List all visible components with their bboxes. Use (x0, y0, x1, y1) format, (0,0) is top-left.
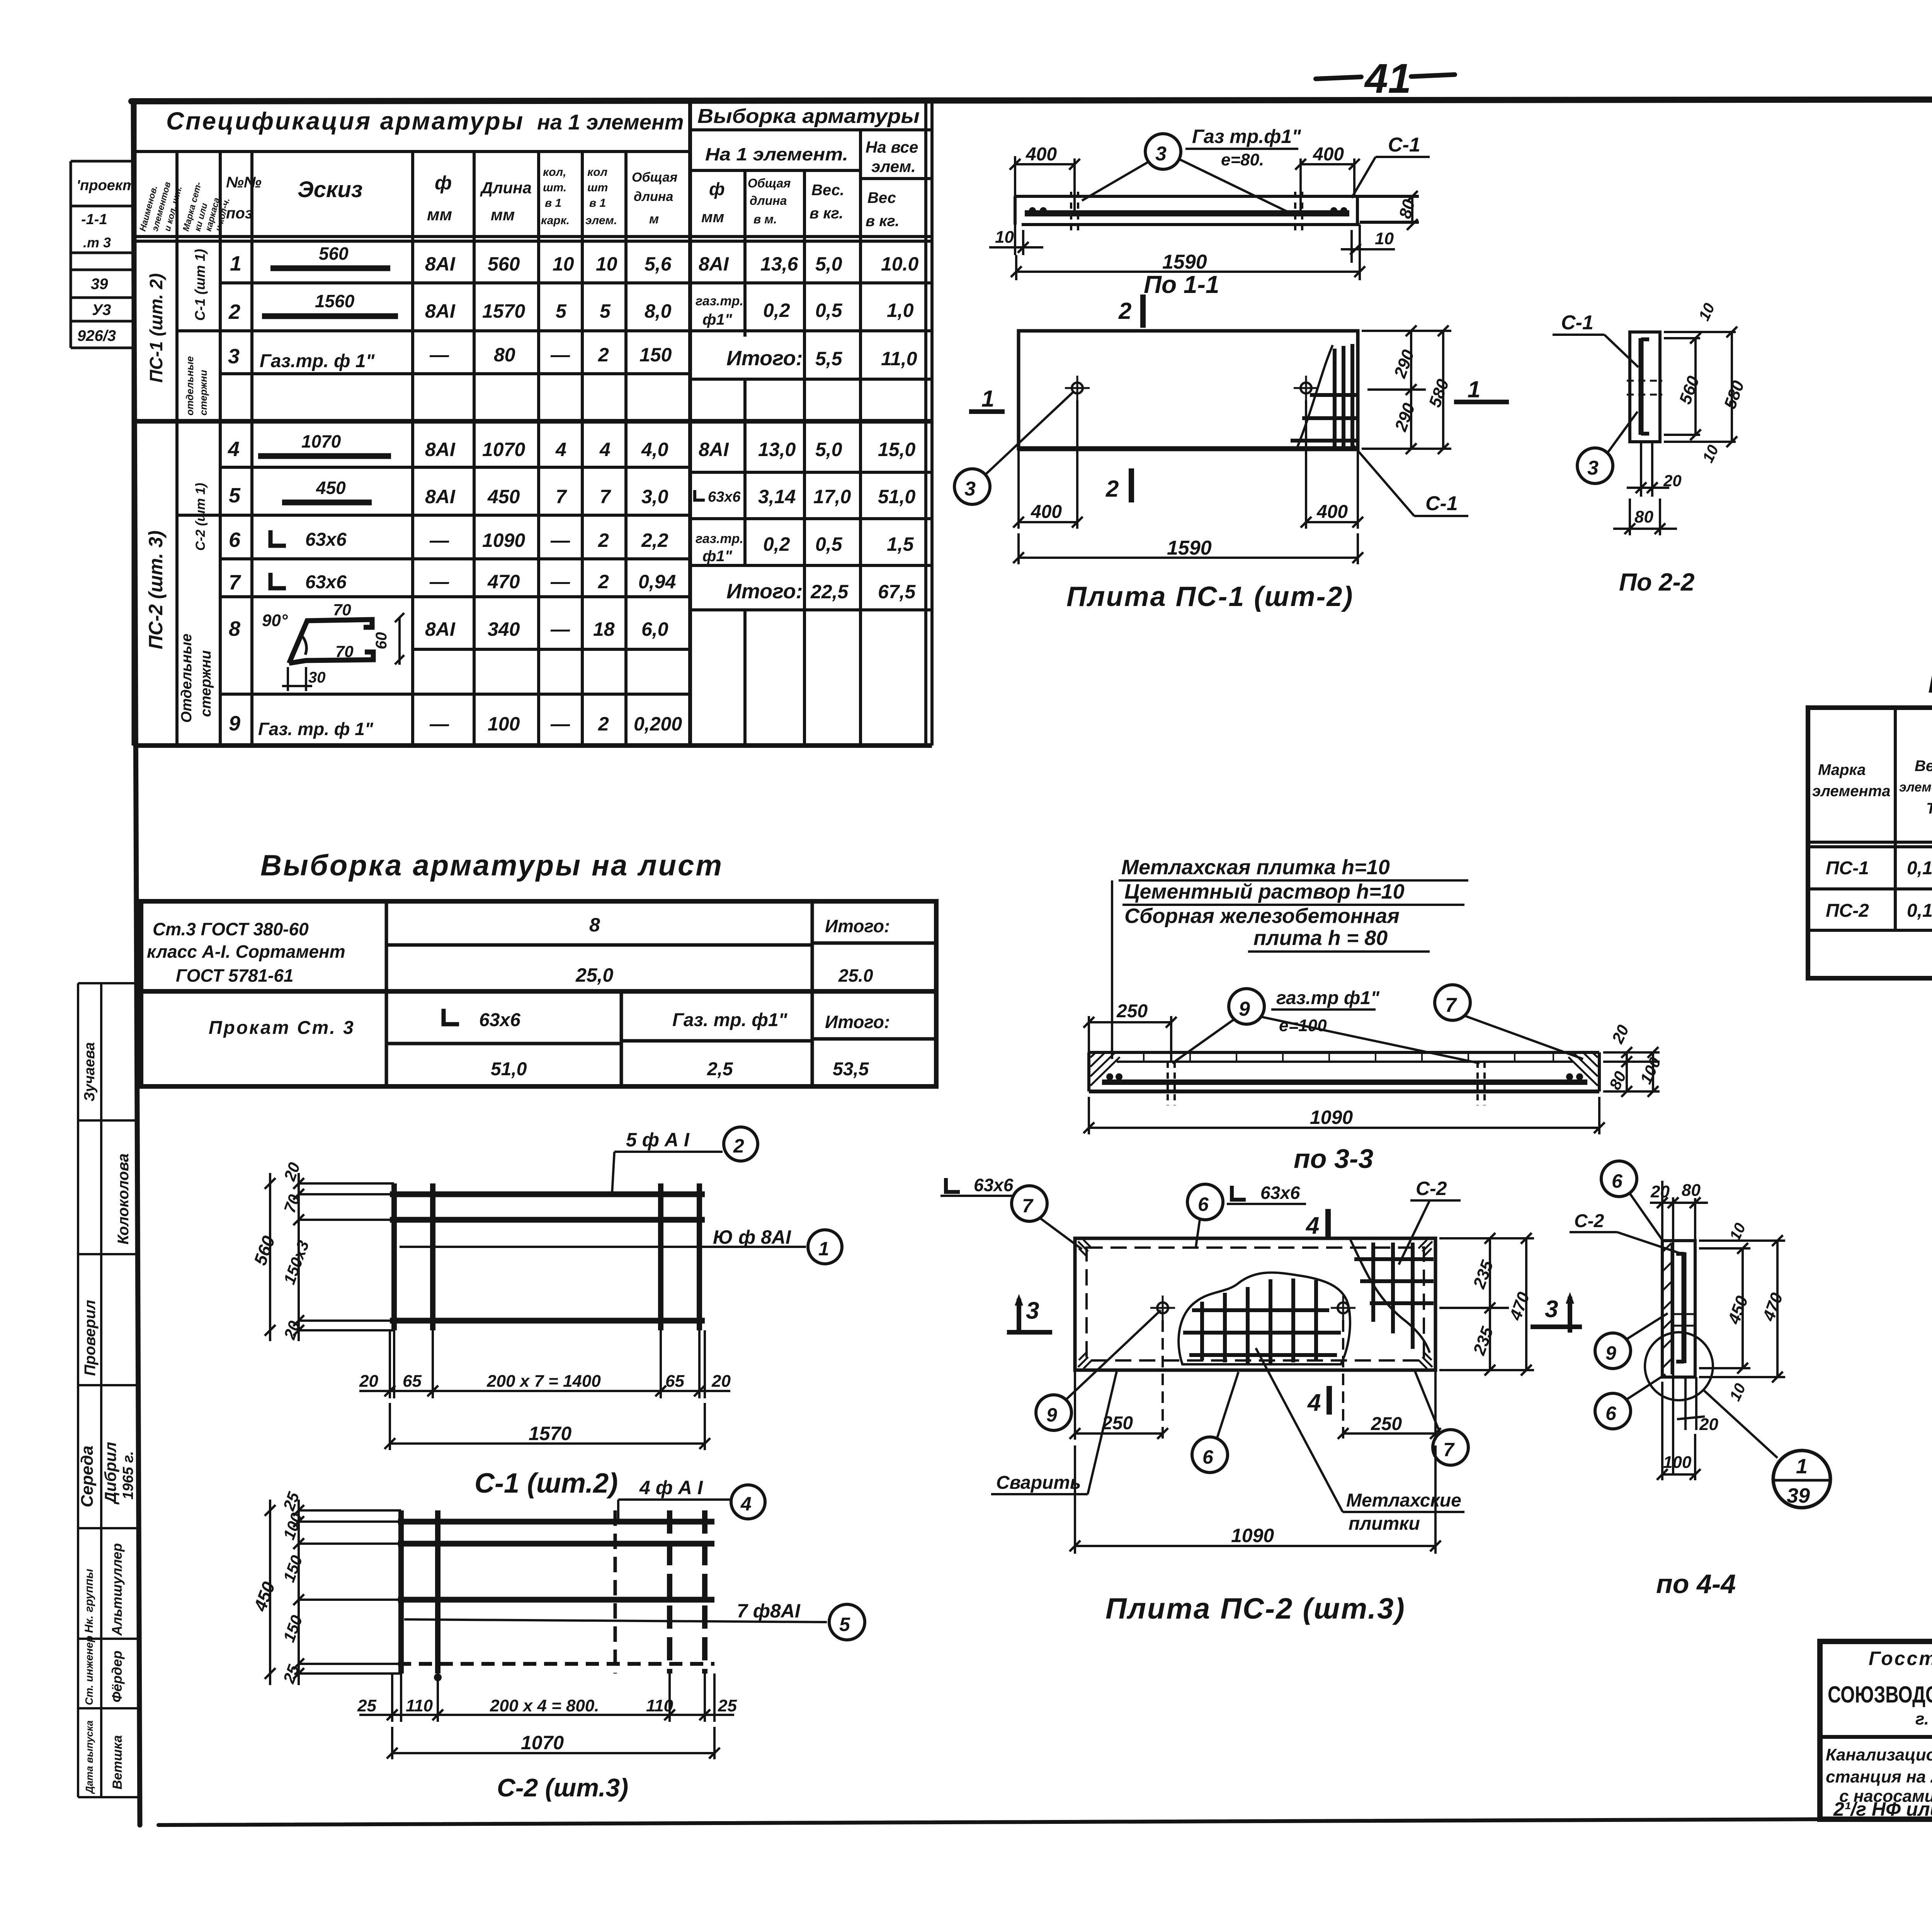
dim 1070 (387, 1727, 720, 1759)
bottom dims chain (359, 1674, 734, 1722)
circle 6 bottom (1595, 1393, 1631, 1429)
svg-text:10: 10 (995, 228, 1014, 247)
row lines (1808, 887, 1932, 890)
svg-text:2,2: 2,2 (641, 529, 668, 551)
svg-text:41: 41 (1364, 55, 1411, 102)
table header texts (137, 105, 920, 232)
svg-text:1070: 1070 (301, 431, 341, 451)
svg-text:7: 7 (600, 486, 611, 507)
table grid (134, 100, 932, 746)
dim 400 bottom left (1013, 400, 1363, 564)
mesh vertical bars (391, 1183, 397, 1330)
svg-text:отдельные: отдельные (184, 356, 196, 416)
svg-text:51,0: 51,0 (878, 486, 916, 507)
svg-text:17,0: 17,0 (813, 486, 851, 507)
svg-text:У3: У3 (92, 301, 111, 318)
svg-text:—: — (429, 344, 449, 366)
svg-text:400: 400 (1031, 502, 1062, 522)
svg-text:мм: мм (427, 205, 452, 224)
right dims 235/235/470 (1439, 1233, 1534, 1376)
svg-text:1560: 1560 (315, 291, 355, 311)
PO 4-4 (1570, 1161, 1830, 1599)
svg-text:ф: ф (435, 172, 452, 194)
angle 63x6 circle 7 top-left (946, 1178, 960, 1192)
svg-text:в 1: в 1 (589, 197, 606, 209)
svg-text:0,94: 0,94 (638, 571, 676, 592)
svg-text:Ст. инженер: Ст. инженер (83, 1636, 95, 1705)
svg-text:25: 25 (357, 1696, 376, 1715)
svg-text:200 x 7 = 1400: 200 x 7 = 1400 (486, 1372, 601, 1391)
svg-text:мм: мм (491, 206, 515, 224)
svg-text:класс А-I. Сортамент: класс А-I. Сортамент (147, 941, 345, 962)
svg-text:8АI: 8АI (699, 253, 729, 275)
svg-text:400: 400 (1026, 144, 1057, 165)
svg-text:8: 8 (229, 617, 240, 640)
circle 6 + 63x6 top-middle (1187, 1184, 1223, 1220)
svg-text:20: 20 (711, 1372, 731, 1391)
svg-text:20: 20 (1663, 472, 1682, 490)
top dims 20 80 (1650, 1181, 1708, 1474)
PO 3-3 (1083, 856, 1664, 1174)
svg-text:С-1 (шт.2): С-1 (шт.2) (474, 1468, 618, 1499)
svg-text:г. Москва: г. Москва (1915, 1709, 1932, 1728)
svg-text:Колоколова: Колоколова (115, 1153, 132, 1245)
svg-text:На все: На все (866, 138, 918, 156)
svg-text:5,0: 5,0 (815, 439, 842, 460)
svg-text:Итого:: Итого: (825, 1012, 890, 1032)
svg-text:Итого:: Итого: (726, 347, 803, 370)
svg-text:0,200: 0,200 (634, 713, 682, 735)
svg-text:С-1: С-1 (1388, 134, 1420, 156)
svg-text:Дата выпуска: Дата выпуска (83, 1720, 95, 1794)
svg-text:плита h = 80: плита h = 80 (1253, 926, 1388, 950)
svg-text:25: 25 (718, 1696, 737, 1715)
svg-text:63x6: 63x6 (479, 1010, 520, 1030)
dim 1090 (1070, 1445, 1441, 1554)
svg-text:6: 6 (229, 528, 241, 552)
svg-text:Марка: Марка (1818, 761, 1866, 778)
svg-text:На 1 элемент.: На 1 элемент. (705, 144, 848, 164)
svg-text:Прокат Ст. 3: Прокат Ст. 3 (209, 1018, 355, 1038)
right dims (1603, 1047, 1660, 1097)
svg-text:элем.: элем. (871, 157, 916, 175)
svg-text:51,0: 51,0 (491, 1059, 527, 1079)
svg-text:длина: длина (634, 189, 673, 204)
svg-text:110: 110 (406, 1696, 433, 1715)
svg-text:С-2: С-2 (1574, 1211, 1604, 1231)
svg-text:5,0: 5,0 (815, 253, 842, 275)
svg-text:Спецификация арматуры: Спецификация арматуры (166, 107, 524, 135)
dim 250 (1083, 1016, 1177, 1062)
svg-text:10: 10 (1375, 229, 1394, 248)
left dims (265, 1173, 394, 1341)
svg-text:5: 5 (839, 1614, 850, 1635)
svg-text:Альтшуллер: Альтшуллер (109, 1543, 125, 1636)
svg-text:7 ф8АI: 7 ф8АI (737, 1600, 801, 1622)
svg-text:e=80.: e=80. (1221, 150, 1264, 169)
svg-text:8АI: 8АI (699, 439, 729, 460)
svg-text:Вес: Вес (1915, 758, 1932, 775)
svg-text:60: 60 (373, 632, 390, 650)
svg-text:90°: 90° (262, 611, 288, 630)
svg-text:Выборка арматуры: Выборка арматуры (697, 105, 920, 128)
slab vertical section (1630, 332, 1660, 442)
slab section outline (1015, 192, 1419, 232)
mesh in corner (1291, 344, 1358, 447)
svg-text:По 1-1: По 1-1 (1144, 271, 1219, 298)
svg-text:ПС-1 (шт. 2): ПС-1 (шт. 2) (146, 273, 166, 383)
svg-text:4,0: 4,0 (641, 439, 668, 460)
right dims 560/580 (1664, 327, 1737, 447)
LEFT MARGIN (71, 161, 140, 1797)
svg-text:газ.тр.: газ.тр. (696, 294, 743, 308)
bottom reinforcement (1102, 1079, 1587, 1085)
svg-text:поз: поз (226, 205, 253, 222)
svg-text:—: — (550, 529, 570, 551)
svg-text:5: 5 (556, 300, 567, 322)
svg-text:70: 70 (333, 601, 351, 619)
svg-text:4: 4 (555, 439, 566, 460)
inner dashed frame (1087, 1248, 1424, 1360)
svg-text:450: 450 (487, 486, 520, 507)
svg-text:Итого:: Итого: (726, 580, 803, 603)
svg-text:С-2 (шт.3): С-2 (шт.3) (497, 1773, 628, 1802)
svg-text:длина: длина (750, 194, 787, 208)
svg-text:13,0: 13,0 (758, 439, 796, 460)
svg-text:250: 250 (1116, 1001, 1148, 1021)
svg-text:2: 2 (598, 713, 609, 735)
svg-text:9: 9 (1046, 1404, 1057, 1426)
svg-text:Метлахские: Метлахские (1346, 1490, 1461, 1511)
signature strip (78, 983, 140, 1797)
svg-text:0,5: 0,5 (815, 533, 843, 555)
svg-text:в 1: в 1 (545, 197, 561, 209)
svg-text:Газ. тр. ф 1": Газ. тр. ф 1" (258, 719, 374, 739)
svg-text:3: 3 (1587, 457, 1599, 479)
svg-text:65: 65 (665, 1372, 684, 1391)
grid (1808, 708, 1932, 978)
svg-text:1070: 1070 (521, 1732, 564, 1754)
svg-text:ф1": ф1" (702, 548, 733, 565)
svg-text:Нк. группы: Нк. группы (83, 1569, 95, 1633)
svg-text:—: — (429, 529, 449, 551)
svg-text:2¹/г НФ или 4НФ: 2¹/г НФ или 4НФ (1833, 1798, 1932, 1820)
tube cross dashes (1673, 1313, 1696, 1315)
svg-text:ф1": ф1" (702, 311, 733, 328)
tile dots (1144, 1052, 1553, 1062)
svg-text:Газ.тр. ф 1": Газ.тр. ф 1" (260, 351, 375, 371)
svg-text:Сборная железобетонная: Сборная железобетонная (1124, 904, 1400, 928)
svg-text:Метлахская плитка h=10: Метлахская плитка h=10 (1121, 856, 1390, 879)
svg-text:63x6: 63x6 (305, 529, 347, 550)
svg-text:15,0: 15,0 (878, 439, 916, 460)
svg-text:80: 80 (1634, 507, 1653, 526)
main reinforcement bar (1025, 210, 1349, 216)
svg-text:—: — (429, 571, 449, 592)
svg-text:м: м (649, 212, 659, 226)
data rows (1826, 855, 1932, 967)
right dims 290/290/580 (1362, 325, 1451, 454)
row horizontals (220, 281, 932, 284)
svg-text:С-1: С-1 (1425, 492, 1458, 515)
SPEC TABLE (134, 100, 932, 746)
svg-text:карк.: карк. (541, 214, 570, 227)
svg-text:25,0: 25,0 (575, 964, 614, 986)
svg-text:0,17: 0,17 (1907, 858, 1932, 878)
svg-text:С-1 (шт 1): С-1 (шт 1) (192, 249, 208, 321)
svg-text:Сварить: Сварить (996, 1473, 1081, 1493)
svg-text:—: — (550, 344, 570, 366)
hole crosshairs (1157, 1302, 1168, 1313)
PLITA PS-1 (954, 295, 1509, 612)
data values right (695, 253, 919, 603)
svg-text:1090: 1090 (1231, 1525, 1274, 1546)
svg-text:340: 340 (488, 618, 520, 640)
svg-text:22,5: 22,5 (810, 581, 849, 603)
svg-text:4: 4 (599, 439, 611, 460)
header horizontals (134, 150, 690, 153)
svg-text:ПС-2 (шт. 3): ПС-2 (шт. 3) (145, 530, 167, 649)
svg-text:1965 г.: 1965 г. (120, 1451, 136, 1500)
svg-text:3: 3 (1155, 143, 1167, 165)
circle 9 (1595, 1333, 1631, 1369)
svg-text:—: — (429, 713, 449, 735)
svg-text:7: 7 (1022, 1195, 1034, 1217)
row numbers (228, 252, 241, 735)
svg-text:ПС-2: ПС-2 (1826, 901, 1869, 921)
svg-text:С-2: С-2 (1416, 1178, 1447, 1199)
dim 1570 (384, 1403, 710, 1450)
svg-text:7: 7 (229, 571, 241, 594)
svg-text:63x6: 63x6 (1260, 1183, 1300, 1203)
left hatch (1662, 1243, 1672, 1374)
svg-text:9: 9 (1239, 998, 1250, 1020)
tube dashed (1167, 1062, 1169, 1105)
frame top line (131, 99, 1932, 101)
bottom dim 100 (1657, 1382, 1701, 1480)
hole crosshair left (1072, 383, 1083, 393)
svg-text:400: 400 (1316, 502, 1348, 522)
svg-text:шт: шт (587, 181, 608, 194)
svg-text:1,0: 1,0 (887, 300, 914, 321)
svg-text:4: 4 (1305, 1212, 1319, 1239)
svg-text:2,5: 2,5 (707, 1059, 733, 1079)
sketches col (258, 243, 404, 739)
svg-text:газ.тр ф1": газ.тр ф1" (1276, 988, 1380, 1008)
svg-text:470: 470 (487, 571, 520, 592)
svg-text:250: 250 (1371, 1414, 1402, 1434)
svg-text:1,5: 1,5 (887, 533, 914, 555)
svg-text:кол: кол (587, 166, 608, 179)
svg-text:6,0: 6,0 (641, 618, 668, 640)
right dims (1699, 1235, 1785, 1382)
svg-text:6: 6 (1198, 1193, 1209, 1215)
svg-text:8АI: 8АI (425, 486, 456, 507)
svg-text:№№: №№ (226, 174, 262, 191)
TITLE BLOCK (1820, 1641, 1932, 1861)
svg-text:шт.: шт. (543, 181, 566, 194)
svg-text:СОЮЗВОДОКАНАЛПРОЕКТ: СОЮЗВОДОКАНАЛПРОЕКТ (1828, 1682, 1932, 1708)
svg-text:ПС-1: ПС-1 (1826, 858, 1869, 878)
svg-text:Ст.3 ГОСТ 380-60: Ст.3 ГОСТ 380-60 (153, 919, 309, 939)
svg-text:8,0: 8,0 (645, 300, 672, 322)
header texts (1812, 710, 1932, 828)
data values left (425, 253, 682, 735)
svg-text:67,5: 67,5 (878, 581, 916, 603)
svg-text:63x6: 63x6 (708, 489, 741, 505)
svg-text:мм: мм (701, 209, 724, 226)
circle 1/39 (1773, 1451, 1830, 1508)
svg-text:1: 1 (981, 386, 994, 412)
svg-text:18: 18 (593, 618, 615, 640)
svg-text:6: 6 (1612, 1170, 1623, 1192)
svg-text:элемента: элемента (1899, 780, 1932, 795)
svg-text:по 4-4: по 4-4 (1656, 1569, 1736, 1599)
RASHOD TABLE (1808, 666, 1932, 978)
svg-text:1: 1 (1796, 1455, 1808, 1478)
svg-text:1590: 1590 (1162, 251, 1207, 273)
vertical bar C-2 (1682, 1252, 1687, 1363)
bottom dims 250/250 (1070, 1320, 1441, 1440)
circle 6 top (1601, 1161, 1637, 1197)
svg-text:кол,: кол, (543, 166, 566, 179)
svg-text:7: 7 (1443, 1439, 1455, 1461)
svg-text:С-1: С-1 (1561, 312, 1594, 334)
svg-text:10: 10 (553, 253, 574, 275)
mesh vertical bars (398, 1510, 404, 1674)
svg-text:7: 7 (1445, 994, 1457, 1016)
svg-text:9: 9 (229, 712, 240, 735)
svg-text:5 ф А I: 5 ф А I (626, 1129, 690, 1151)
svg-text:Плита ПС-2 (шт.3): Плита ПС-2 (шт.3) (1105, 1592, 1406, 1625)
svg-text:ГОСТ 5781-61: ГОСТ 5781-61 (176, 965, 294, 986)
dim 400 right (1299, 158, 1302, 213)
svg-text:—: — (550, 618, 570, 640)
svg-text:2: 2 (598, 529, 609, 551)
svg-text:Эскиз: Эскиз (298, 177, 362, 202)
svg-text:'проект: 'проект (77, 177, 136, 194)
svg-text:Дибрил: Дибрил (101, 1442, 119, 1505)
svg-text:Фёрдер: Фёрдер (109, 1651, 125, 1702)
svg-text:8АI: 8АI (425, 300, 456, 322)
S-2 (250, 1477, 865, 1802)
bottom dim 20 (1684, 1377, 1687, 1430)
svg-text:Выборка арматуры на лист: Выборка арматуры на лист (260, 849, 723, 882)
circle 7 bottom right (1433, 1430, 1468, 1465)
left dims (265, 1500, 401, 1685)
double line under header (1808, 841, 1932, 844)
svg-text:7: 7 (556, 486, 567, 507)
svg-text:63x6: 63x6 (305, 572, 347, 592)
svg-text:в м.: в м. (753, 212, 777, 226)
svg-text:560: 560 (488, 253, 520, 275)
dim 400 left (1010, 156, 1360, 213)
svg-text:5: 5 (229, 484, 241, 507)
svg-text:0,5: 0,5 (815, 300, 843, 321)
frame bottom line (158, 1817, 1932, 1825)
svg-text:20: 20 (359, 1372, 378, 1391)
svg-text:926/3: 926/3 (77, 327, 116, 344)
svg-text:Итого:: Итого: (825, 916, 890, 936)
svg-text:Газ тр.ф1": Газ тр.ф1" (1192, 126, 1301, 147)
svg-text:65: 65 (403, 1372, 422, 1391)
svg-text:8: 8 (589, 914, 600, 936)
rotated group labels col1/col2 (145, 249, 214, 723)
svg-text:Вес.: Вес. (811, 182, 844, 199)
svg-text:1570: 1570 (529, 1423, 571, 1444)
svg-text:0,12: 0,12 (1907, 901, 1932, 921)
svg-text:250: 250 (1102, 1413, 1133, 1433)
bottom dims chain (359, 1330, 730, 1398)
svg-text:1090: 1090 (1310, 1107, 1353, 1128)
dim 1590 bottom (1017, 533, 1020, 564)
svg-text:6: 6 (1605, 1403, 1617, 1424)
svg-text:e=100: e=100 (1279, 1016, 1327, 1035)
verticals (1894, 708, 1897, 930)
svg-text:2: 2 (1105, 476, 1119, 502)
dim 1590 (1015, 255, 1017, 280)
svg-text:2: 2 (228, 300, 240, 323)
svg-text:0,2: 0,2 (763, 300, 790, 321)
svg-text:6: 6 (1202, 1446, 1214, 1468)
svg-text:Ветшка: Ветшка (110, 1735, 125, 1789)
dim 80 right (1411, 196, 1413, 225)
svg-text:11,0: 11,0 (881, 348, 917, 369)
svg-text:газ.тр.: газ.тр. (696, 531, 743, 546)
svg-text:63x6: 63x6 (974, 1175, 1014, 1195)
svg-text:Общая: Общая (748, 176, 791, 190)
svg-text:в кг.: в кг. (810, 205, 843, 222)
svg-text:400: 400 (1313, 144, 1344, 165)
svg-text:560: 560 (319, 243, 349, 264)
svg-text:100: 100 (488, 713, 520, 735)
svg-text:1090: 1090 (482, 529, 525, 551)
svg-text:2: 2 (733, 1135, 744, 1157)
slab section (1089, 1052, 1599, 1091)
frame left line (133, 101, 140, 1825)
svg-text:1590: 1590 (1167, 537, 1212, 559)
svg-text:3,14: 3,14 (758, 486, 796, 507)
svg-text:Зучаева: Зучаева (82, 1042, 98, 1102)
svg-text:4: 4 (1307, 1389, 1321, 1416)
svg-text:Плита ПС-1 (шт-2): Плита ПС-1 (шт-2) (1066, 581, 1354, 612)
svg-text:станция на 2 агрегата: станция на 2 агрегата (1826, 1767, 1932, 1786)
svg-text:С-2 (шт 1): С-2 (шт 1) (193, 483, 208, 551)
svg-text:39: 39 (91, 276, 108, 293)
svg-text:Газ. тр. ф1": Газ. тр. ф1" (672, 1010, 788, 1030)
svg-text:2: 2 (1118, 298, 1131, 324)
svg-text:По 2-2: По 2-2 (1619, 568, 1694, 596)
label 7 phi 8AI + circle 5 (404, 1619, 827, 1622)
svg-text:Канализационная насосная: Канализационная насосная (1826, 1745, 1932, 1764)
svg-text:элемента: элемента (1812, 783, 1890, 800)
VYBORKA TABLE (141, 849, 936, 1086)
svg-text:стержни: стержни (197, 370, 209, 415)
svg-text:Госстрой СССР: Госстрой СССР (1869, 1648, 1932, 1669)
slab vertical section (1662, 1241, 1695, 1377)
tube dashed positions (1070, 192, 1072, 232)
svg-text:.т 3: .т 3 (83, 235, 111, 250)
svg-text:25.0: 25.0 (838, 965, 873, 986)
svg-text:2: 2 (598, 344, 609, 366)
corner weld ticks (1078, 1240, 1092, 1257)
top-right mesh C-2 (1354, 1243, 1434, 1349)
svg-text:Расход материалов на лист: Расход материалов на лист (1928, 666, 1932, 699)
label 10 phi 8AI + circle 1 (400, 1246, 806, 1248)
svg-text:150: 150 (639, 344, 672, 366)
svg-text:4 ф А I: 4 ф А I (639, 1477, 703, 1498)
svg-text:80: 80 (494, 344, 515, 366)
